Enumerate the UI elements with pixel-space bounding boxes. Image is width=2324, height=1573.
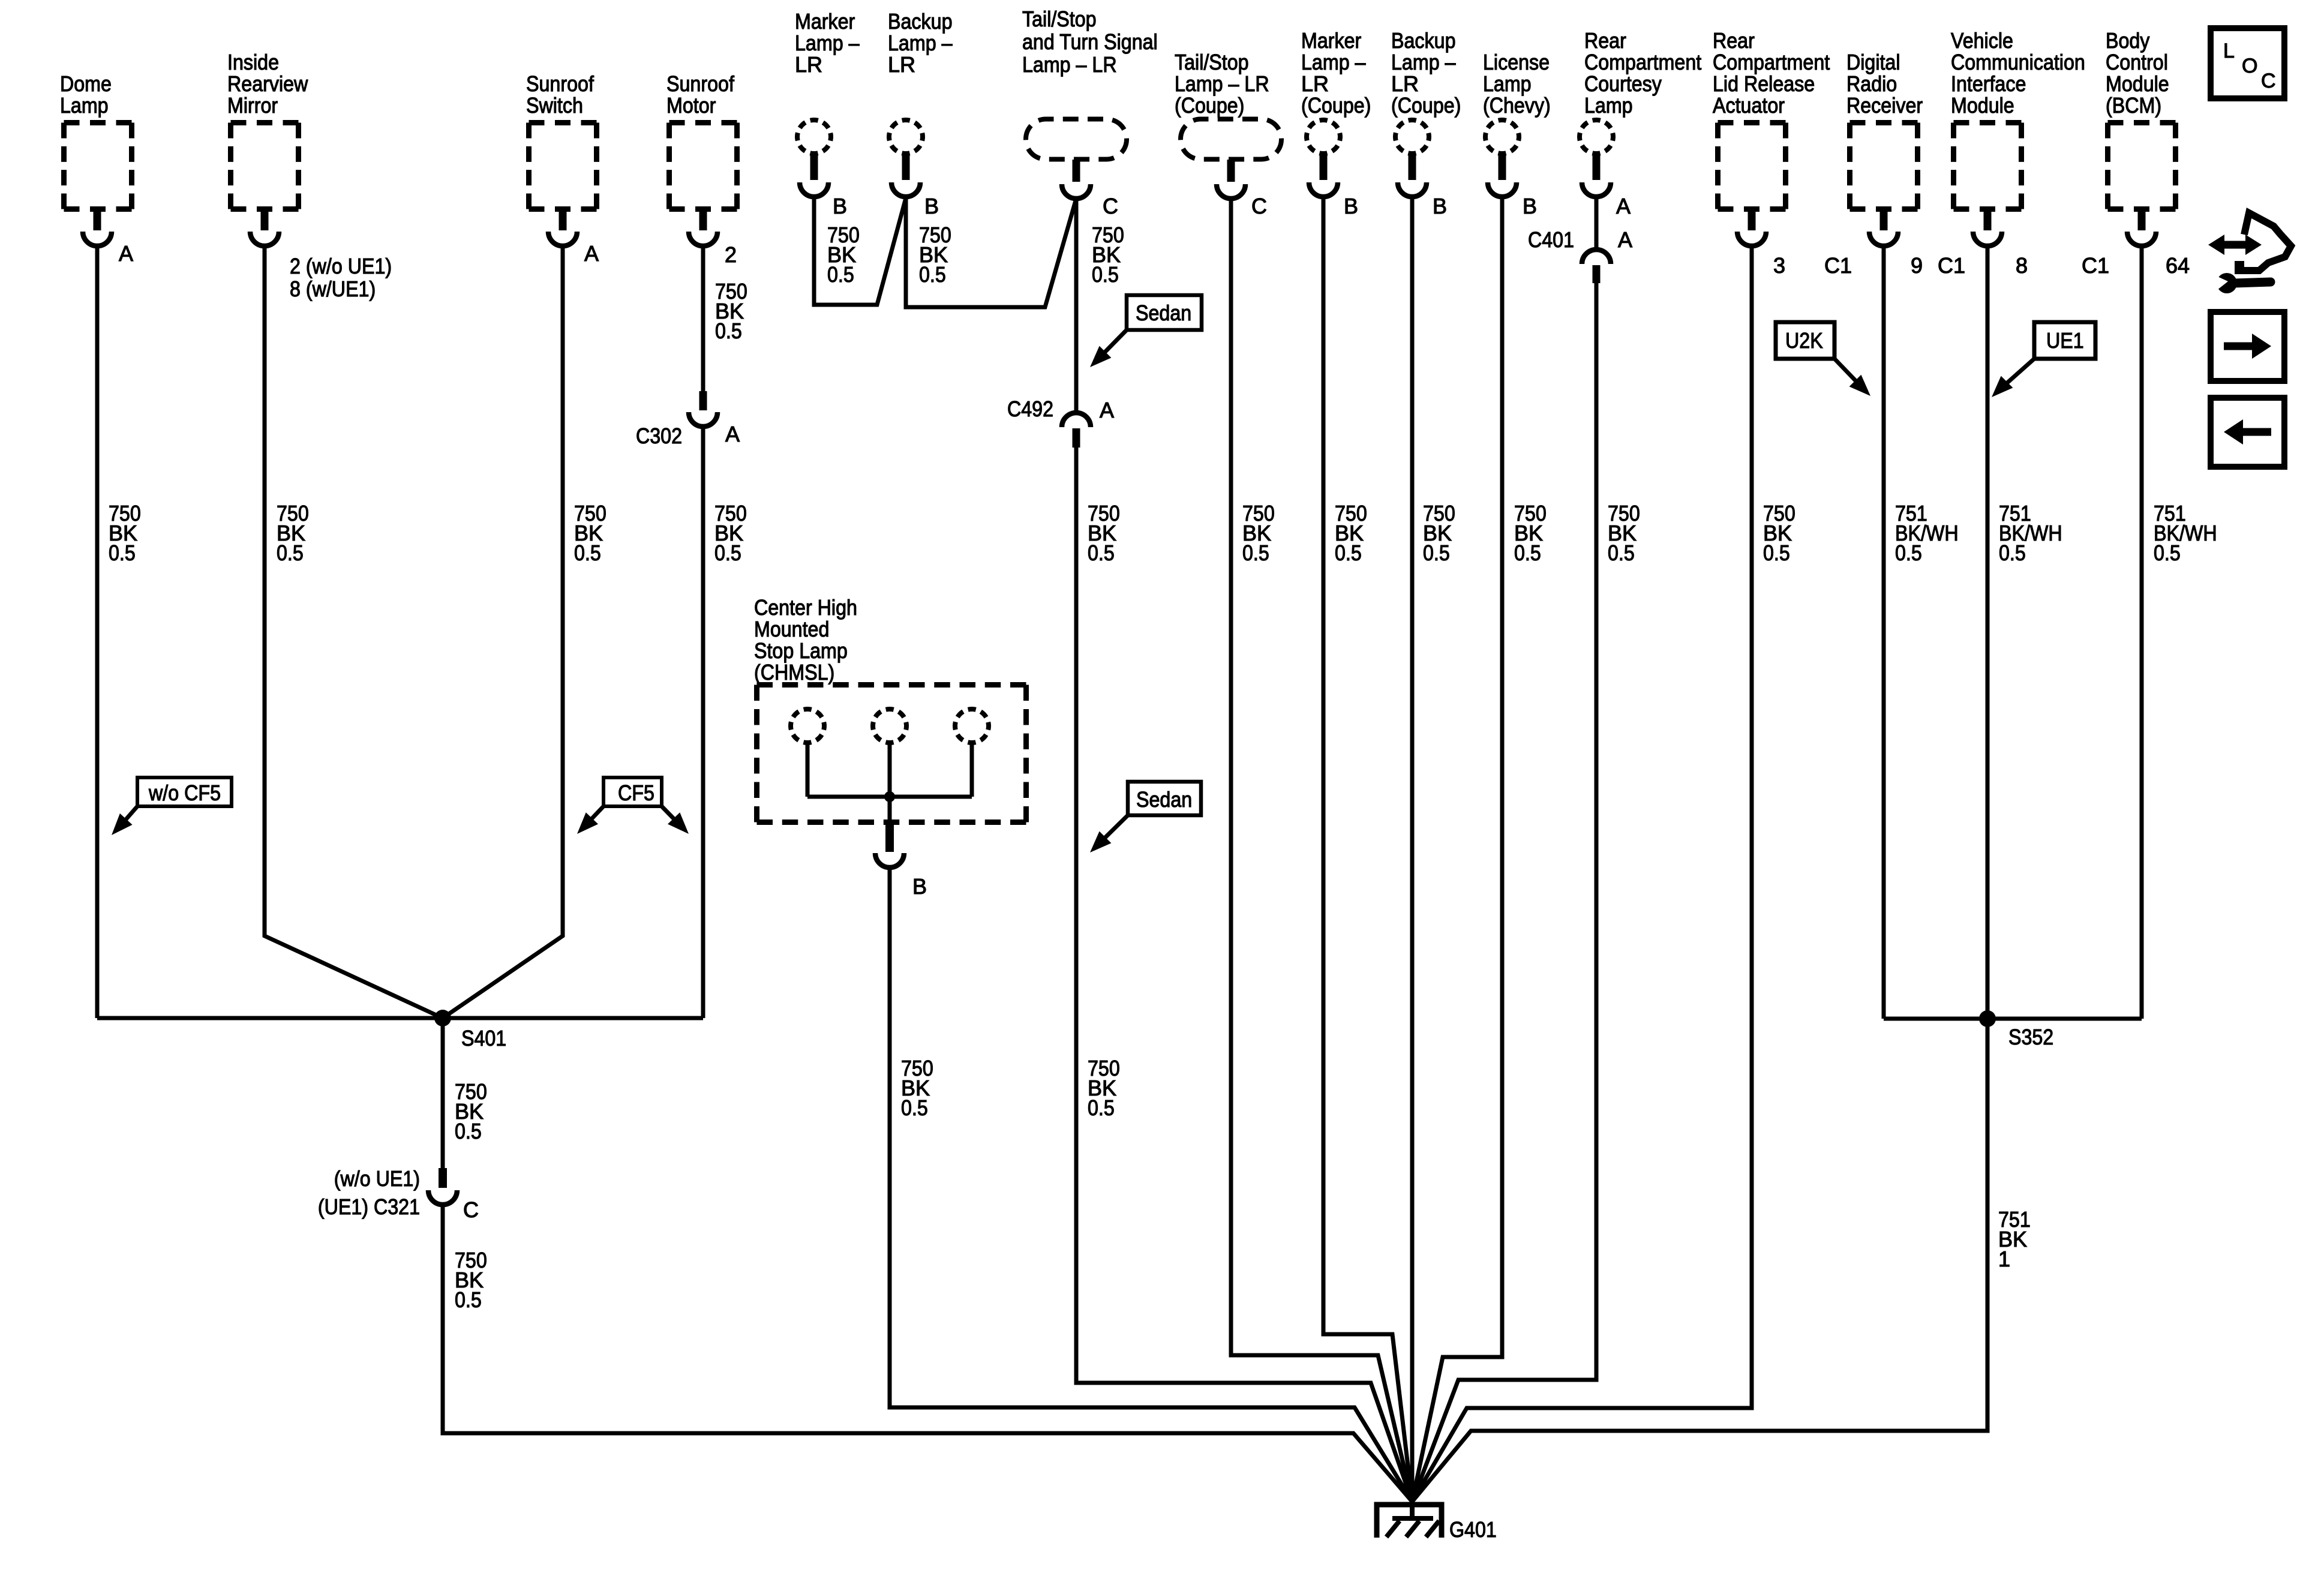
svg-text:A: A	[1616, 194, 1631, 218]
svg-text:Module: Module	[2106, 71, 2169, 96]
svg-text:C: C	[463, 1197, 479, 1222]
svg-text:Courtesy: Courtesy	[1584, 71, 1662, 96]
svg-text:A: A	[584, 241, 599, 266]
svg-text:8: 8	[2016, 253, 2028, 278]
svg-text:Mounted: Mounted	[754, 617, 829, 641]
svg-text:8 (w/UE1): 8 (w/UE1)	[290, 277, 376, 301]
svg-text:Lamp: Lamp	[60, 93, 109, 118]
svg-text:0.5: 0.5	[715, 319, 742, 343]
svg-text:Switch: Switch	[526, 93, 583, 118]
svg-text:Rear: Rear	[1584, 28, 1626, 53]
svg-text:0.5: 0.5	[1514, 541, 1541, 565]
svg-text:G401: G401	[1449, 1517, 1497, 1542]
svg-text:Rearview: Rearview	[227, 71, 308, 96]
svg-text:0.5: 0.5	[919, 262, 946, 287]
svg-text:A: A	[119, 241, 133, 266]
svg-text:Vehicle: Vehicle	[1951, 28, 2013, 53]
svg-text:L: L	[2223, 40, 2235, 62]
svg-text:A: A	[725, 422, 740, 446]
svg-text:Lamp – LR: Lamp – LR	[1022, 52, 1117, 77]
svg-text:(Chevy): (Chevy)	[1483, 93, 1551, 118]
svg-text:LR: LR	[888, 52, 915, 77]
svg-text:Sedan: Sedan	[1136, 301, 1191, 325]
svg-text:LR: LR	[1301, 71, 1329, 96]
svg-text:C: C	[2261, 70, 2276, 92]
svg-text:Tail/Stop: Tail/Stop	[1175, 50, 1249, 74]
svg-text:Lamp –: Lamp –	[795, 31, 860, 55]
svg-text:Rear: Rear	[1713, 28, 1755, 53]
svg-text:C1: C1	[1938, 253, 1965, 278]
svg-text:Sunroof: Sunroof	[526, 71, 594, 96]
svg-text:(Coupe): (Coupe)	[1391, 93, 1461, 118]
svg-text:Compartment: Compartment	[1713, 50, 1830, 74]
svg-text:Mirror: Mirror	[227, 93, 278, 118]
svg-text:A: A	[1100, 398, 1114, 422]
svg-text:License: License	[1483, 50, 1550, 74]
svg-text:B: B	[1433, 194, 1447, 218]
svg-text:(Coupe): (Coupe)	[1301, 93, 1371, 118]
svg-text:2 (w/o UE1): 2 (w/o UE1)	[290, 254, 392, 278]
svg-text:0.5: 0.5	[1088, 1095, 1115, 1120]
svg-text:0.5: 0.5	[455, 1287, 482, 1312]
svg-text:0.5: 0.5	[827, 262, 854, 287]
svg-text:0.5: 0.5	[1335, 541, 1362, 565]
svg-text:Lamp –: Lamp –	[888, 31, 953, 55]
svg-text:UE1: UE1	[2046, 328, 2084, 353]
svg-text:B: B	[924, 194, 939, 218]
svg-text:0.5: 0.5	[1242, 541, 1269, 565]
svg-text:C: C	[1103, 194, 1118, 218]
svg-text:LR: LR	[795, 52, 822, 77]
svg-text:0.5: 0.5	[109, 541, 136, 565]
svg-text:Radio: Radio	[1846, 71, 1897, 96]
svg-text:9: 9	[1911, 253, 1923, 278]
svg-text:0.5: 0.5	[1092, 262, 1119, 287]
svg-text:Lamp –: Lamp –	[1391, 50, 1456, 74]
svg-text:Stop Lamp: Stop Lamp	[754, 638, 848, 663]
svg-text:S401: S401	[461, 1026, 506, 1050]
svg-text:2: 2	[725, 242, 737, 267]
svg-text:Lamp: Lamp	[1584, 93, 1633, 118]
svg-text:C302: C302	[636, 424, 682, 448]
svg-text:Communication: Communication	[1951, 50, 2085, 74]
svg-text:Motor: Motor	[666, 93, 716, 118]
svg-text:Module: Module	[1951, 93, 2014, 118]
svg-text:w/o CF5: w/o CF5	[148, 781, 221, 805]
svg-text:(CHMSL): (CHMSL)	[754, 660, 834, 685]
svg-text:0.5: 0.5	[714, 541, 741, 565]
svg-text:0.5: 0.5	[2154, 541, 2181, 565]
svg-text:0.5: 0.5	[1088, 541, 1115, 565]
svg-text:(UE1) C321: (UE1) C321	[318, 1194, 420, 1219]
svg-text:C: C	[1251, 194, 1267, 218]
svg-text:Lamp –: Lamp –	[1301, 50, 1366, 74]
svg-text:Sunroof: Sunroof	[666, 71, 735, 96]
svg-text:0.5: 0.5	[1423, 541, 1450, 565]
svg-text:Lamp – LR: Lamp – LR	[1175, 71, 1269, 96]
svg-text:Lid Release: Lid Release	[1713, 71, 1815, 96]
svg-text:0.5: 0.5	[1895, 541, 1922, 565]
svg-text:0.5: 0.5	[1608, 541, 1635, 565]
svg-text:B: B	[1344, 194, 1358, 218]
svg-text:U2K: U2K	[1785, 328, 1823, 353]
svg-text:Backup: Backup	[1391, 28, 1456, 53]
svg-text:Tail/Stop: Tail/Stop	[1022, 7, 1097, 31]
svg-text:Lamp: Lamp	[1483, 71, 1532, 96]
svg-text:C1: C1	[2082, 253, 2109, 278]
svg-text:C492: C492	[1007, 397, 1053, 421]
svg-text:B: B	[912, 874, 927, 899]
svg-text:Marker: Marker	[1301, 28, 1361, 53]
svg-text:Digital: Digital	[1846, 50, 1900, 74]
svg-text:Body: Body	[2106, 28, 2149, 53]
svg-text:Sedan: Sedan	[1136, 787, 1192, 812]
svg-text:0.5: 0.5	[901, 1095, 928, 1120]
svg-text:B: B	[1523, 194, 1537, 218]
svg-text:Compartment: Compartment	[1584, 50, 1701, 74]
svg-text:Actuator: Actuator	[1713, 93, 1785, 118]
svg-text:1: 1	[1998, 1247, 2010, 1271]
svg-text:CF5: CF5	[618, 781, 654, 805]
svg-text:O: O	[2242, 55, 2257, 77]
svg-text:0.5: 0.5	[1763, 541, 1790, 565]
svg-text:0.5: 0.5	[1999, 541, 2026, 565]
svg-text:3: 3	[1773, 253, 1785, 278]
svg-text:Inside: Inside	[227, 50, 279, 74]
svg-text:LR: LR	[1391, 71, 1419, 96]
svg-text:S352: S352	[2008, 1025, 2053, 1049]
svg-text:0.5: 0.5	[277, 541, 304, 565]
svg-text:and Turn Signal: and Turn Signal	[1022, 29, 1158, 54]
svg-text:B: B	[833, 194, 847, 218]
svg-text:0.5: 0.5	[455, 1119, 482, 1143]
svg-text:(w/o UE1): (w/o UE1)	[334, 1166, 420, 1191]
svg-text:Marker: Marker	[795, 9, 855, 34]
svg-text:64: 64	[2166, 253, 2190, 278]
svg-text:Dome: Dome	[60, 71, 112, 96]
svg-text:Interface: Interface	[1951, 71, 2026, 96]
svg-text:Backup: Backup	[888, 9, 953, 34]
svg-text:A: A	[1618, 227, 1632, 252]
svg-text:Center High: Center High	[754, 595, 857, 620]
svg-text:Receiver: Receiver	[1846, 93, 1923, 118]
svg-text:(Coupe): (Coupe)	[1175, 93, 1244, 118]
svg-text:C401: C401	[1528, 227, 1574, 252]
svg-text:Control: Control	[2106, 50, 2168, 74]
svg-text:0.5: 0.5	[574, 541, 601, 565]
svg-text:C1: C1	[1824, 253, 1852, 278]
svg-text:(BCM): (BCM)	[2106, 93, 2161, 118]
